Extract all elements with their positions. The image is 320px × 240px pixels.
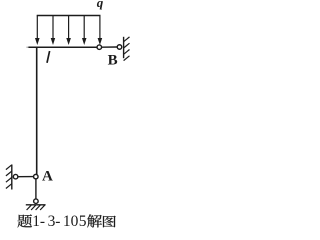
right wall line (123, 37, 125, 58)
svg-text:A: A (42, 168, 53, 184)
caption character JIE (solution) (87, 214, 102, 227)
left wall hatch 3 (6, 177, 12, 182)
load arrow 4 (83, 16, 85, 40)
right wall hatch 3 (124, 50, 130, 55)
column (vertical member) (36, 47, 38, 175)
right wall hatch 4 (124, 56, 130, 61)
load arrow 1 (36, 16, 38, 40)
hinge circle at B (97, 45, 102, 50)
load arrow 3 (68, 16, 70, 40)
svg-text:1-3-105: 1-3-105 (32, 213, 86, 230)
svg-text:q: q (97, 0, 104, 10)
svg-text:B: B (108, 53, 118, 69)
ground hatch 3 (36, 205, 41, 210)
hinge circle at A (34, 174, 39, 179)
ground line (26, 204, 46, 206)
left wall hatch 2 (6, 171, 12, 176)
link end circle at right wall (117, 45, 122, 50)
left wall line (11, 165, 13, 190)
label l (beam length) (47, 51, 50, 63)
beam (top member) (28, 46, 97, 48)
horizontal link A to left wall (18, 176, 34, 178)
left wall hatch 1 (6, 165, 12, 170)
link end circle at left wall (13, 174, 18, 179)
load arrow 2 (52, 16, 54, 40)
link end circle at ground (34, 199, 39, 204)
load arrow 5 (99, 16, 101, 40)
ground hatch 1 (27, 205, 32, 210)
right wall hatch 1 (124, 37, 130, 42)
ground hatch 4 (40, 205, 45, 210)
vertical link A to ground (35, 179, 37, 199)
distributed load q : top line (37, 15, 101, 17)
caption character TU (figure) (103, 216, 116, 227)
right wall hatch 2 (124, 43, 130, 48)
caption character TI (problem) (17, 214, 32, 227)
horizontal link B to right wall (102, 46, 118, 48)
left wall hatch 4 (6, 184, 12, 189)
ground hatch 2 (31, 205, 36, 210)
